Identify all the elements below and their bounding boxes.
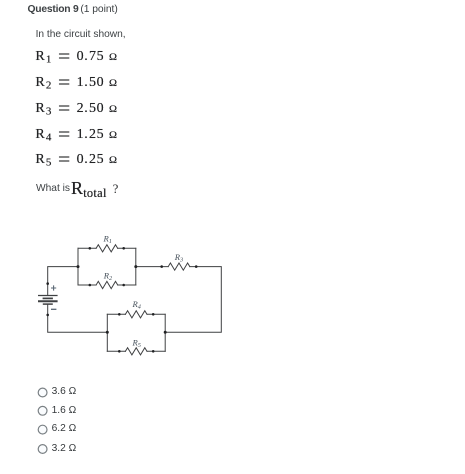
- node battery bottom terminal: [46, 314, 49, 317]
- intro text: [36, 30, 126, 40]
- svg-text:R2: R2: [103, 270, 113, 282]
- R1 terminal dots: [89, 247, 92, 250]
- svg-text:R5: R5: [132, 337, 141, 349]
- node C left junction of bottom box: [106, 331, 109, 334]
- wire bottom rail segments around R2: [78, 284, 136, 286]
- resistor R3: [168, 263, 190, 270]
- radio option 4: [38, 445, 47, 454]
- resistor R1: [96, 245, 118, 252]
- node B right junction of top box: [134, 265, 137, 268]
- wire node B to R3: [136, 266, 168, 268]
- resistor R4: [125, 311, 147, 318]
- equation R2: [35, 76, 116, 91]
- question header bold: [28, 5, 79, 15]
- svg-text:R1: R1: [103, 233, 112, 245]
- battery minus label: [51, 308, 56, 310]
- battery B1 plates: [38, 296, 58, 305]
- equation R5: [35, 153, 116, 168]
- wire battery top to node A: [48, 267, 78, 296]
- R4 terminal dots: [118, 313, 121, 316]
- R5 terminal dots: [118, 350, 121, 353]
- option 1 text: [52, 387, 77, 397]
- wire top rail segments around R1: [78, 247, 136, 249]
- wire bottom box right vertical: [164, 314, 166, 351]
- wire top box right vertical: [135, 248, 137, 285]
- equation R4: [35, 128, 116, 143]
- option 3 text: [52, 424, 77, 434]
- option 4 text: [52, 444, 77, 454]
- wire R5 rail segments: [107, 350, 165, 352]
- node D right junction of bottom box: [164, 331, 167, 334]
- resistor R5: [125, 348, 147, 355]
- R2 terminal dots: [89, 284, 92, 287]
- svg-text:R4: R4: [132, 299, 141, 311]
- radio option 1: [38, 388, 47, 397]
- equation R1: [35, 50, 116, 65]
- battery plus label: [51, 285, 56, 290]
- wire battery bottom to node C: [48, 304, 108, 332]
- node battery top terminal: [46, 282, 49, 285]
- wire R4 rail segments: [107, 313, 165, 315]
- equation R3: [35, 102, 116, 117]
- R3 terminal dots: [160, 265, 163, 268]
- question header points: [80, 5, 117, 15]
- wire R3 to right corner down to node D: [165, 267, 221, 333]
- radio option 2: [38, 406, 47, 415]
- junction dots: [46, 247, 197, 353]
- node A left junction of top box: [77, 265, 80, 268]
- radio buttons: [38, 388, 47, 453]
- what is Rtotal: [36, 184, 70, 194]
- resistor R2: [96, 281, 118, 288]
- radio option 3: [38, 425, 47, 434]
- wire bottom box left vertical: [106, 314, 108, 351]
- svg-text:R3: R3: [174, 252, 183, 264]
- option 2 text: [52, 406, 77, 416]
- wire top box left vertical: [77, 248, 79, 285]
